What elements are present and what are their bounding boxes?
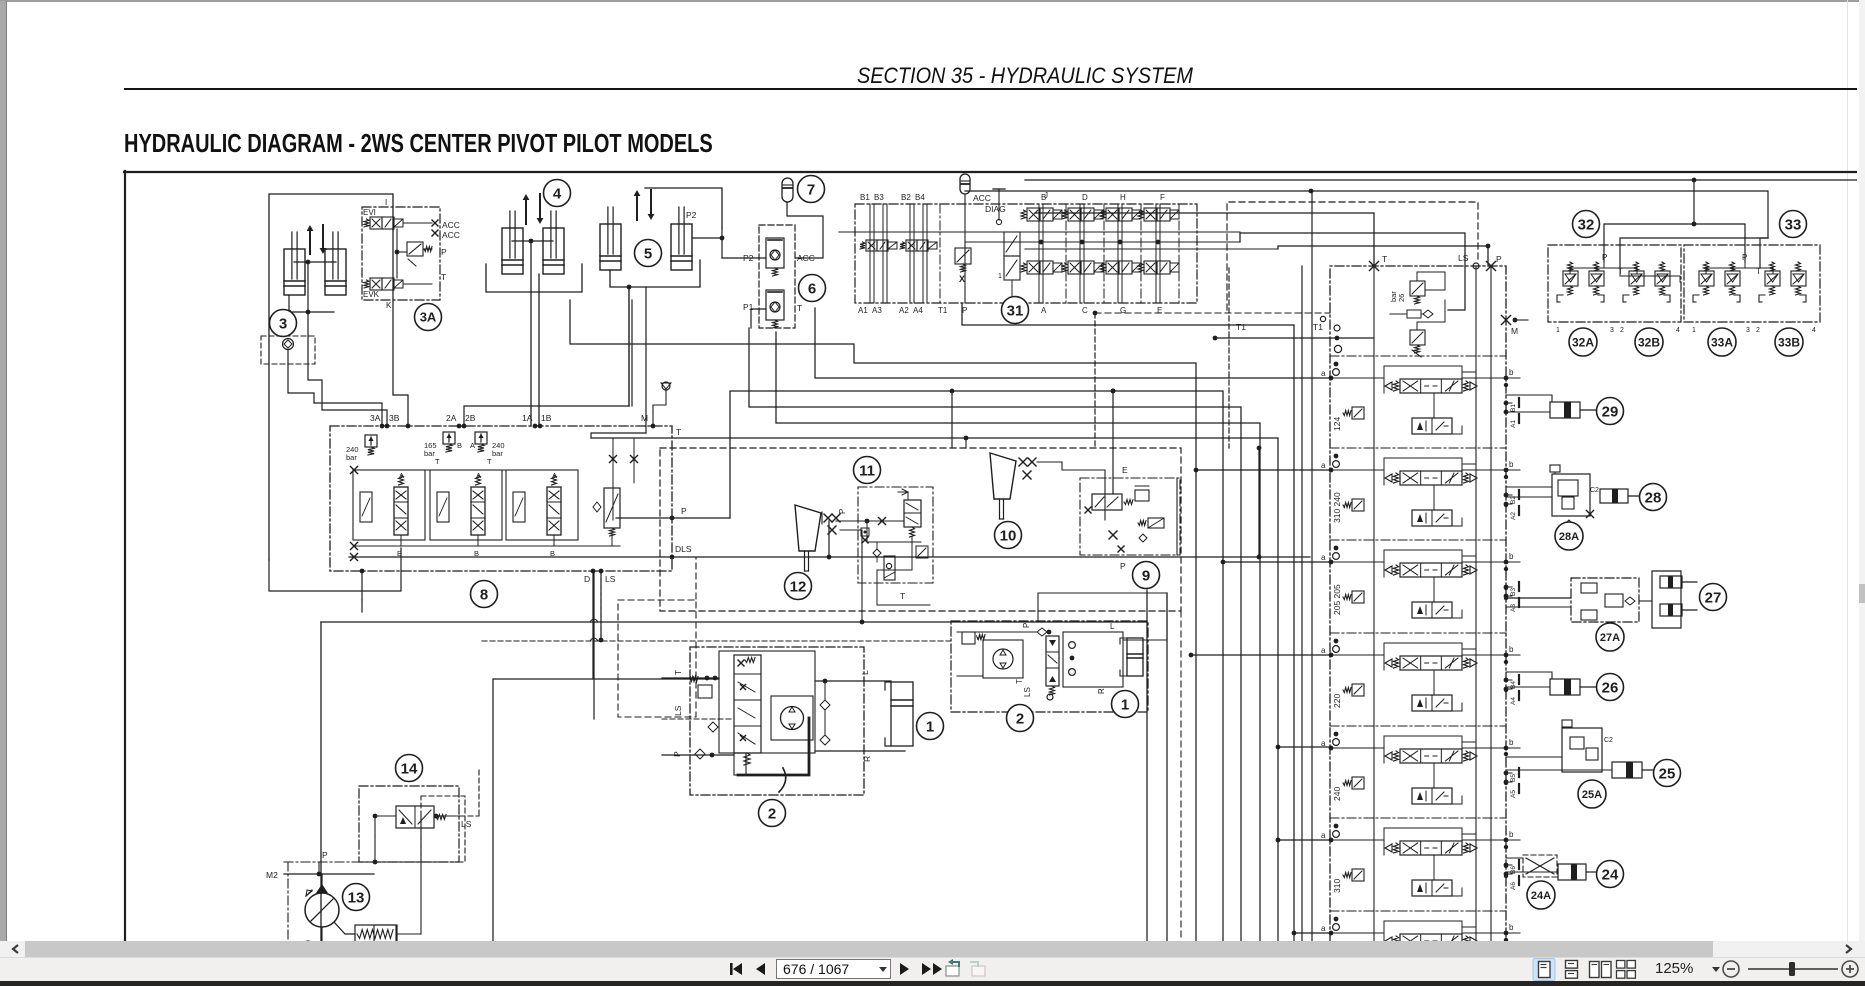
svg-text:26: 26	[1397, 294, 1406, 302]
svg-text:B3: B3	[874, 193, 884, 202]
steering cyl 1 right	[1127, 638, 1143, 676]
bank module 4 main valve	[1400, 656, 1462, 670]
svg-text:1: 1	[1692, 327, 1696, 334]
svg-text:L: L	[860, 670, 870, 675]
wires group 4 down	[530, 241, 532, 426]
svg-text:27: 27	[1705, 589, 1722, 606]
accumulator ACC of 31	[960, 174, 970, 194]
svg-text:A1: A1	[1510, 420, 1517, 428]
svg-text:9: 9	[1142, 567, 1150, 584]
svg-text:T: T	[435, 457, 440, 466]
wires 11	[839, 518, 841, 521]
circle 14	[396, 755, 423, 782]
svg-text:b: b	[1509, 460, 1514, 469]
svg-text:A3: A3	[1510, 604, 1517, 612]
svg-text:ACC: ACC	[442, 220, 460, 230]
svg-text:B2: B2	[901, 193, 911, 202]
manifold 31 outer dash-dot	[855, 204, 1197, 303]
svg-text:1: 1	[926, 718, 934, 735]
block 8 bottom rails	[354, 545, 620, 547]
valve bank outer dash-dot	[1330, 266, 1506, 941]
next view icon (disabled)	[970, 962, 985, 976]
svg-text:A1: A1	[858, 306, 868, 315]
bank module 4 secondary valve	[1412, 695, 1452, 711]
check bits 11	[861, 528, 869, 536]
svg-text:T: T	[900, 591, 905, 601]
bank module separator 3	[1330, 632, 1506, 634]
bank module 6 left circles	[1334, 824, 1339, 829]
steering cylinder 1 left	[891, 682, 913, 746]
arrows group 5	[636, 194, 638, 220]
circle 3	[270, 310, 297, 337]
circle 33	[1780, 211, 1807, 238]
bank module 1 inner frame	[1384, 366, 1462, 393]
svg-text:K: K	[386, 301, 392, 310]
toolbar nav next button	[900, 963, 909, 975]
bank top relief 26bar	[1410, 281, 1425, 296]
block 8 T stubs with X	[612, 438, 614, 520]
valve EVI	[370, 217, 382, 229]
wires right steering	[957, 631, 1037, 633]
cylinder 5 left	[600, 224, 621, 270]
a1 feeder wire	[815, 308, 1331, 378]
bank module 7 b-port	[1504, 931, 1509, 936]
steering inner frame	[719, 651, 815, 753]
svg-text:27A: 27A	[1600, 632, 1620, 644]
svg-text:P2: P2	[686, 210, 697, 220]
valve small 11 solenoid	[884, 556, 895, 580]
svg-text:310 240: 310 240	[1332, 492, 1342, 523]
bank module 6 a-port	[1329, 838, 1334, 843]
svg-text:3B: 3B	[389, 413, 400, 423]
toolbar nav last button	[922, 963, 942, 975]
brake valve box 6 dashed	[759, 225, 795, 328]
bank check orifice	[1407, 310, 1421, 318]
wire P feed to bank	[1278, 246, 1488, 266]
block 8 section frames	[353, 470, 425, 540]
svg-text:ACC: ACC	[442, 230, 460, 240]
svg-text:M: M	[641, 413, 648, 423]
svg-text:7: 7	[807, 181, 815, 198]
svg-text:T: T	[797, 303, 802, 313]
svg-text:a: a	[1321, 553, 1326, 562]
bank module 5 LS tap	[1462, 741, 1476, 743]
svg-text:P: P	[1602, 253, 1607, 262]
svg-text:2B: 2B	[465, 413, 476, 423]
svg-text:B7: B7	[1510, 959, 1517, 967]
svg-text:P: P	[962, 306, 967, 315]
svg-text:32B: 32B	[1638, 335, 1660, 349]
svg-text:A: A	[1041, 306, 1047, 315]
dashed pilot line 31 to bank	[1095, 312, 1330, 314]
layout icon two-up	[1590, 962, 1612, 978]
pilot valve box 3A dash-dot	[362, 207, 440, 300]
zoom plus	[1842, 961, 1858, 977]
steering spool	[734, 655, 761, 753]
bottom dark strip	[0, 981, 1865, 986]
svg-text:14: 14	[401, 760, 418, 777]
valve 6 upper	[766, 238, 784, 268]
box 14 dashed inner	[421, 796, 465, 862]
bank module 5 b-port	[1504, 746, 1509, 751]
svg-text:28A: 28A	[1559, 531, 1579, 543]
bank module 3 main valve	[1400, 563, 1462, 577]
wire 3 down	[307, 262, 309, 312]
circle 10	[995, 522, 1022, 549]
svg-text:T1: T1	[1236, 322, 1246, 332]
block 8 pilot caps	[360, 492, 372, 522]
svg-text:1A: 1A	[522, 413, 533, 423]
bank module 6 B/A ports	[1504, 863, 1509, 868]
arrows group 4	[525, 198, 527, 224]
svg-text:B4: B4	[1510, 681, 1517, 689]
svg-text:33B: 33B	[1778, 335, 1800, 349]
cluster 32 dash-dot box	[1548, 245, 1681, 322]
block 8 spools	[394, 487, 408, 535]
bank module 2 b-port	[1504, 468, 1509, 473]
zoom slider	[1748, 968, 1838, 970]
reducer 31	[1004, 232, 1020, 256]
accumulator 7	[782, 178, 793, 202]
bank module 2 inner frame	[1384, 458, 1462, 485]
svg-text:A2: A2	[899, 306, 909, 315]
svg-text:J: J	[1044, 191, 1048, 200]
svg-text:LS: LS	[1458, 253, 1469, 263]
svg-text:B5: B5	[1510, 774, 1517, 782]
svg-text:P: P	[1496, 254, 1502, 264]
shuttle pair 12	[824, 514, 832, 522]
staircase run a6	[591, 438, 1278, 941]
group 5 drop pair	[628, 287, 630, 406]
valve 14	[396, 806, 434, 828]
svg-text:M2: M2	[266, 870, 278, 880]
bank module 5 left circles	[1334, 732, 1339, 737]
svg-text:bar: bar	[492, 449, 503, 458]
svg-text:bar: bar	[346, 453, 357, 462]
cyl 24	[1558, 864, 1586, 880]
svg-text:2: 2	[768, 805, 776, 822]
svg-text:T: T	[676, 427, 681, 437]
page box dropdown caret	[879, 967, 887, 972]
circle 26	[1597, 674, 1624, 701]
check valve below 3 (dashed box)	[261, 336, 315, 364]
svg-text:A4: A4	[913, 306, 923, 315]
gerotor 2	[771, 696, 813, 740]
relief 31	[955, 248, 971, 264]
svg-text:P1: P1	[743, 302, 754, 312]
manifold 31 left subbox pipes	[869, 204, 871, 303]
block 8 internal T line	[354, 469, 575, 471]
svg-text:124: 124	[1332, 417, 1342, 431]
svg-text:P: P	[322, 850, 328, 860]
bank module 4 compensator	[1352, 684, 1364, 696]
svg-text:4: 4	[1676, 327, 1680, 334]
svg-text:L: L	[1110, 622, 1115, 631]
horizontal scrollbar thumb	[25, 941, 1713, 957]
arrows group 3	[309, 229, 311, 254]
bank module 3 secondary valve	[1412, 602, 1452, 618]
wire rod link 3	[294, 261, 336, 263]
block 8 B stubs	[477, 535, 479, 546]
bank module 2 a-port	[1329, 468, 1334, 473]
valve B2B4	[906, 240, 917, 251]
svg-text:b: b	[1509, 368, 1514, 377]
cylinder 3 left	[284, 249, 305, 295]
right scrollbar track	[1859, 0, 1865, 941]
hscroll right chevron	[1846, 945, 1851, 953]
cylinder 4 right	[543, 228, 564, 274]
svg-text:E: E	[1122, 465, 1128, 475]
bank module 2 secondary valve	[1412, 510, 1452, 526]
svg-text:T1: T1	[1313, 322, 1323, 332]
svg-text:B1: B1	[1510, 404, 1517, 412]
bank module 3 inner frame	[1384, 550, 1462, 577]
pump bottom fitting	[334, 922, 355, 934]
svg-text:29: 29	[1602, 403, 1619, 420]
column separators 31	[1065, 204, 1067, 303]
brake feed wires T	[965, 191, 1768, 238]
page title	[124, 129, 713, 158]
circle 29	[1597, 398, 1624, 425]
svg-text:2A: 2A	[446, 413, 457, 423]
circle 27	[1700, 584, 1727, 611]
svg-text:E: E	[1157, 306, 1162, 315]
svg-text:F: F	[1160, 193, 1165, 202]
svg-text:P: P	[1022, 623, 1031, 628]
svg-text:R: R	[1097, 688, 1106, 694]
svg-text:R: R	[862, 756, 872, 762]
T1 long return wire	[349, 556, 1310, 558]
svg-text:D: D	[1082, 193, 1088, 202]
svg-text:B6: B6	[1510, 866, 1517, 874]
circle 1 right	[1112, 691, 1139, 718]
wire D vertical	[593, 571, 595, 719]
brake block 27A	[1571, 578, 1639, 622]
svg-text:1: 1	[1121, 696, 1129, 713]
extra bundle verticals	[1180, 611, 1182, 941]
check mark left	[1037, 628, 1047, 636]
bank module 1 b-port	[1504, 376, 1509, 381]
svg-text:28: 28	[1645, 489, 1662, 506]
svg-text:A3: A3	[872, 306, 882, 315]
bank module 3 compensator	[1352, 591, 1364, 603]
svg-text:24A: 24A	[1531, 890, 1551, 902]
trailer valve 28	[1552, 474, 1590, 516]
svg-text:M: M	[1511, 326, 1518, 336]
steering 2 dash-dot box	[690, 647, 864, 795]
bank second relief	[1410, 330, 1425, 345]
svg-text:P: P	[1120, 561, 1126, 571]
wire P2 into 6	[722, 257, 766, 259]
bank module 1 main valve	[1400, 379, 1462, 393]
DLS dashed box	[618, 600, 696, 717]
svg-text:A4: A4	[1510, 697, 1517, 705]
pump control cartridge	[355, 925, 397, 943]
bank module 3 LS tap	[1462, 555, 1476, 557]
steering rotate arc	[779, 768, 786, 792]
T exit 11	[877, 537, 912, 605]
svg-text:5: 5	[644, 245, 652, 262]
bank module separator 6	[1330, 910, 1506, 912]
wire 5 right	[692, 237, 722, 239]
bank module 2 main valve	[1400, 471, 1462, 485]
wire P1 into 6	[751, 309, 766, 328]
solenoid 9	[1148, 518, 1164, 528]
svg-text:1B: 1B	[541, 413, 552, 423]
svg-text:32A: 32A	[1572, 335, 1594, 349]
svg-text:ACC: ACC	[973, 193, 991, 203]
svg-text:25: 25	[1659, 765, 1676, 782]
bank module 4 B/A ports	[1504, 678, 1509, 683]
svg-text:b: b	[1509, 552, 1514, 561]
toolbar nav first-page button	[730, 963, 742, 975]
bank module 1 compensator	[1352, 407, 1364, 419]
svg-text:P: P	[441, 247, 447, 257]
svg-text:P: P	[672, 751, 682, 757]
marks 9	[1109, 531, 1117, 539]
wire 7 down	[787, 202, 823, 258]
svg-text:24: 24	[1602, 866, 1619, 883]
circle 13	[343, 884, 370, 911]
svg-text:C: C	[1082, 306, 1088, 315]
right margin port dots	[1504, 383, 1508, 387]
circle 4	[544, 180, 571, 207]
bank module 7 main valve	[1400, 934, 1462, 948]
valve grid 31	[1038, 204, 1040, 303]
viewer left page-edge strip	[0, 1, 7, 941]
crossing wires 31	[839, 231, 1240, 233]
valve B1B3	[866, 240, 877, 251]
svg-text:A: A	[476, 471, 481, 480]
svg-text:LS: LS	[1023, 687, 1032, 697]
svg-text:33: 33	[1785, 216, 1802, 233]
bank module 7 left circles	[1334, 917, 1339, 922]
cluster 33 internals	[1704, 262, 1709, 271]
horizontal scrollbar track	[0, 941, 1865, 957]
bank module 4 left circles	[1334, 639, 1339, 644]
valve block 8 dash-dot box	[330, 426, 672, 571]
bank module 6 b-port	[1504, 838, 1509, 843]
svg-text:LS: LS	[461, 819, 472, 829]
zoom percent	[1655, 960, 1693, 977]
bank module 5 inner frame	[1384, 736, 1462, 763]
svg-text:13: 13	[348, 889, 365, 906]
header underline	[124, 88, 1857, 90]
svg-text:26: 26	[1602, 679, 1619, 696]
bank module 1 left circles	[1334, 362, 1339, 367]
long wire low horizontal	[321, 621, 1147, 623]
svg-text:A6: A6	[1510, 882, 1517, 890]
svg-text:10: 10	[1000, 527, 1017, 544]
toolbar nav prev button	[756, 963, 765, 975]
svg-text:a: a	[1321, 369, 1326, 378]
circle 1 (left)	[917, 713, 944, 740]
cluster 32 internals	[1568, 262, 1573, 271]
bank module 3 left circles	[1334, 546, 1339, 551]
zoom minus	[1723, 961, 1739, 977]
svg-text:H: H	[1120, 193, 1126, 202]
bank module 1 LS tap	[1462, 371, 1476, 373]
svg-text:DIAG: DIAG	[985, 204, 1006, 214]
lever 12 lower wire	[840, 530, 862, 622]
steering diamonds	[708, 722, 718, 732]
diagram frame left border	[124, 171, 126, 941]
svg-text:b: b	[1509, 738, 1514, 747]
svg-text:a: a	[1321, 831, 1326, 840]
wire 3 to manifold	[288, 364, 382, 426]
svg-text:a: a	[1321, 924, 1326, 933]
svg-text:A2: A2	[1510, 512, 1517, 520]
bank module 1 secondary valve	[1412, 418, 1452, 434]
viewer top edge	[0, 0, 1865, 2]
cluster 33 dash-dot box	[1684, 245, 1820, 322]
svg-text:A7: A7	[1510, 975, 1517, 983]
svg-text:bar: bar	[1389, 291, 1398, 302]
svg-text:8: 8	[480, 586, 488, 603]
circle 31	[1002, 297, 1029, 324]
bank module 2 LS tap	[1462, 463, 1476, 465]
svg-text:a: a	[1321, 646, 1326, 655]
bank module 3 a-port	[1329, 560, 1334, 565]
svg-text:3: 3	[1746, 327, 1750, 334]
bank module 6 compensator	[1352, 869, 1364, 881]
svg-text:205 205: 205 205	[1332, 584, 1342, 615]
lever 12	[795, 505, 821, 551]
block 8 end section	[604, 488, 620, 528]
group 5 bottom wires	[610, 260, 700, 287]
staircase run a4	[749, 328, 1241, 941]
brake cylinders 27	[1652, 571, 1681, 628]
layout icon single (active)	[1533, 959, 1555, 981]
svg-text:B4: B4	[915, 193, 925, 202]
squiggle crossing marks	[590, 619, 598, 622]
bank module separator 5	[1330, 817, 1506, 819]
bank module 1 a-port	[1329, 376, 1334, 381]
svg-text:31: 31	[1007, 302, 1024, 319]
svg-text:2: 2	[1756, 327, 1760, 334]
block 8 bottom wires	[269, 548, 401, 591]
layout icon continuous	[1566, 961, 1578, 979]
svg-text:A: A	[399, 471, 404, 480]
layout icon two-up continuous	[1617, 961, 1636, 979]
bank rails T LS P	[1373, 266, 1375, 941]
bank module 5 a-port	[1329, 746, 1334, 751]
svg-text:C2: C2	[1604, 737, 1613, 744]
svg-text:X: X	[959, 274, 965, 284]
svg-text:310: 310	[1332, 879, 1342, 893]
right steering spool	[1046, 636, 1059, 686]
svg-text:B: B	[457, 441, 462, 450]
circle 24A	[1527, 881, 1555, 909]
steering L R wires	[815, 680, 891, 682]
svg-text:T: T	[673, 670, 683, 675]
group 5 box	[645, 188, 722, 228]
bank module 2 B/A ports	[1504, 493, 1509, 498]
circle 27A	[1596, 623, 1624, 651]
svg-text:W: W	[976, 635, 983, 642]
block 8 relief valves	[365, 435, 377, 447]
wires 3A	[404, 222, 432, 224]
svg-text:DLS: DLS	[675, 544, 692, 554]
box 9 dash-dot	[1080, 478, 1180, 555]
right steering box dash-dot	[951, 621, 1148, 712]
staircase run a7	[962, 303, 1294, 941]
M port	[1502, 316, 1511, 325]
circle 3A	[415, 304, 442, 331]
pilot box 11/12 dashed	[660, 448, 1181, 611]
circle 8	[471, 581, 498, 608]
svg-text:1: 1	[1556, 327, 1560, 334]
